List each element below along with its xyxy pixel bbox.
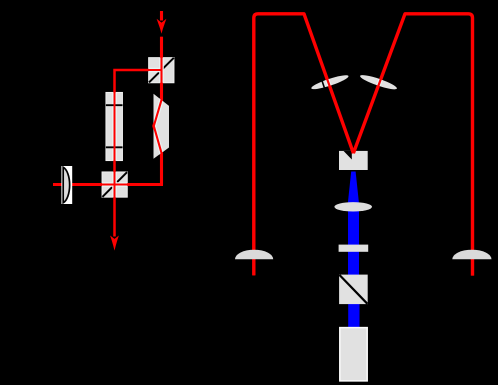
wire: loop beams outer stroke [254,14,473,276]
input arrowhead [157,19,167,34]
blue beam: lens to filter [348,204,359,246]
beam splitter cube BS2 [102,172,127,197]
beam casing over cubes [53,37,163,237]
wire: loop beams thin core [254,14,473,276]
wire: main beam outer stroke (outside elements) [53,37,163,237]
lens L5 (plano-convex, left loop) [235,250,273,260]
output arrowhead below BS2 [110,236,119,251]
photodetector PD [340,328,367,381]
blue beam: filter to PBS [348,250,359,276]
electro-optic modulator EOM body [106,92,123,160]
lens L2 (tilted, left V-arm, doublet mark) [310,73,349,92]
beam splitter cube BS1 [149,58,174,83]
wire: main beam thin core (everywhere) [53,37,163,237]
blue SHG beam: diverging cone below crystal [348,172,359,203]
prism P1 [154,94,170,159]
lens L1 (plano-convex on white backing plate, covers beam) [61,166,72,204]
optical filter F1 [339,245,369,252]
wire: input beam stub above arrowhead [160,11,163,21]
polarizing beam splitter cube PBS [339,275,368,305]
lens L4 (collimating, on blue beam) [334,202,372,211]
lens L6 (plano-convex, right loop) [452,250,491,260]
beam casing over tilted lenses [254,14,473,276]
beam casing over soft elements [53,37,163,237]
nonlinear crystal (SHG) [339,151,368,170]
EOM electrode dividers [106,105,123,147]
lens L3 (tilted, right V-arm) [359,73,398,92]
blue beam: PBS to detector [348,302,359,328]
